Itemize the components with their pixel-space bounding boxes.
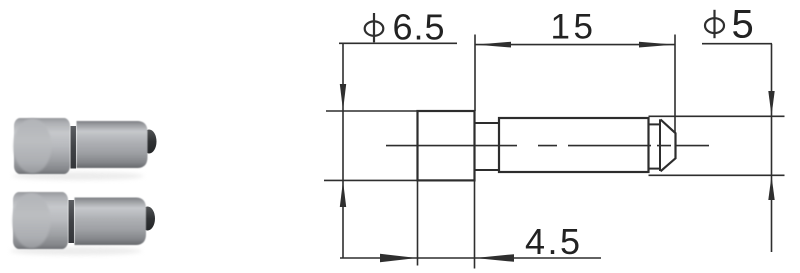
svg-text:4.5: 4.5 <box>525 221 583 262</box>
dimension Φ5: top extension line <box>649 115 785 117</box>
label Φ5: phi symbol <box>705 10 724 38</box>
part outline: big head Φ6.5 <box>418 111 475 180</box>
arrow Φ6.5 bottom (up) <box>340 181 346 207</box>
arrow 4.5 left (right-pointing) <box>380 254 417 262</box>
arrow 15 right <box>639 42 675 48</box>
arrow 15 left <box>476 42 512 48</box>
part outline: relief neck <box>475 123 500 170</box>
dimension Φ5: leader line <box>702 43 772 45</box>
photo: pin 1 shadow <box>12 172 144 180</box>
arrow Φ5 bottom (up) <box>768 176 774 200</box>
arrow Φ6.5 top (down) <box>340 84 346 111</box>
dimension 4.5: left extension line <box>417 180 419 265</box>
photo: pin 1 shaft <box>77 121 148 168</box>
arrow Φ5 top (down) <box>768 91 774 116</box>
dimension 15: left extension line <box>474 35 476 112</box>
photo: pin 2 junction ring <box>69 200 75 243</box>
dimension 15: dimension line <box>475 44 675 46</box>
centerline <box>386 145 709 147</box>
svg-text:5: 5 <box>732 3 754 47</box>
dimension Φ6.5: bottom extension line <box>324 179 418 181</box>
part outline: threaded shaft <box>499 118 649 172</box>
photo: pin 1 junction ring <box>71 126 77 169</box>
dimension 4.5: right extension line <box>474 180 476 268</box>
photo: pin 2 shaft <box>75 198 147 246</box>
part outline: tip flange edge <box>659 119 661 171</box>
dimension Φ6.5: vertical dimension line <box>342 43 344 257</box>
photo: pin 2 shadow <box>10 247 142 255</box>
photo: pin 1 head <box>14 118 70 174</box>
dimension 4.5: dimension line <box>340 257 601 259</box>
arrow 4.5 right (left-pointing) <box>475 254 514 262</box>
photo: pin 1 carbide tip nub <box>142 130 157 154</box>
dimension Φ6.5: leader line <box>339 42 457 44</box>
svg-text:15: 15 <box>551 8 597 47</box>
dimension Φ5: vertical dimension line <box>771 44 773 252</box>
photo: pin 2 carbide tip nub <box>140 207 155 231</box>
photo: pin 2 head <box>13 192 68 249</box>
svg-text:6.5: 6.5 <box>393 7 446 48</box>
photo: pin 1 head front face <box>14 119 52 173</box>
part outline: tip groove <box>649 124 661 168</box>
part outline: chamfered tip <box>661 120 676 172</box>
dimension Φ6.5: top extension line <box>326 110 418 112</box>
label Φ6.5: phi symbol <box>365 13 384 42</box>
dimension 15: right extension line <box>674 35 676 134</box>
photo: pin 2 head front face <box>13 193 51 248</box>
dimension Φ5: bottom extension line <box>649 174 785 176</box>
